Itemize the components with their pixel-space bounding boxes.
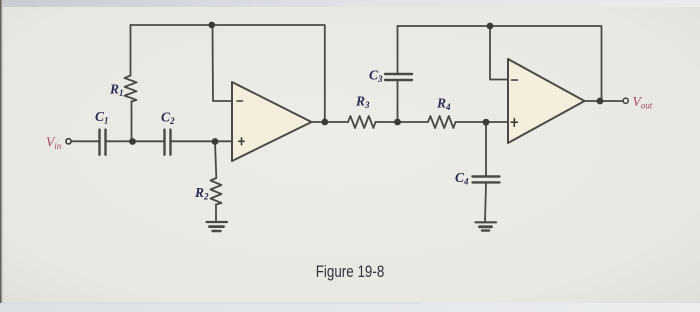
wire C2 to op-amp U1 plus input [172,140,233,142]
op-amp U1 [232,82,312,161]
resistor R4 (horizontal) [428,116,456,128]
output terminal [623,98,628,103]
wire R3 to R4 [376,121,429,123]
node on top wire 1 [208,22,215,29]
node between C1 and C2 [129,138,136,145]
caption [316,263,385,282]
wire top feedback 2 [398,26,602,101]
resistor R1 (vertical) [131,102,133,142]
node at U1 plus input [212,138,219,145]
ground (R2) [207,222,228,231]
svg-text:Figure 19-8: Figure 19-8 [316,263,385,282]
wire C1 to C2 [107,140,164,142]
wire R4 to op-amp U2 plus input [456,121,509,123]
wire minus input U1 [213,25,233,101]
node at U2 plus input [483,119,490,126]
wire minus input U2 [490,26,508,80]
wire top feedback 1 [131,25,325,122]
wire U1 output [312,121,349,123]
wire U2 output to Vout [585,100,623,102]
node on top wire 2 [487,23,494,30]
node at U1 output [321,119,328,126]
node at U2 output [597,98,604,105]
capacitor C2 [165,130,171,155]
input terminal [66,139,71,144]
op-amp U2 [508,59,585,143]
capacitor C1 [100,130,106,155]
node R3/C3 junction [394,119,401,126]
wire Vin to C1 [72,140,99,142]
ground (C4) [476,222,497,230]
capacitor C3 (vertical, to top wire) [397,81,399,122]
resistor R3 (horizontal) [348,116,376,128]
capacitor C4 (vertical, to ground) [485,122,487,176]
resistor R2 (vertical) [215,141,216,178]
